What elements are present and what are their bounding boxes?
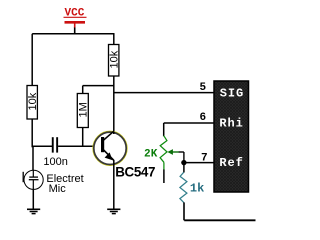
svg-text:10k: 10k bbox=[109, 50, 121, 68]
svg-text:Ref: Ref bbox=[219, 156, 243, 170]
svg-text:5: 5 bbox=[200, 82, 207, 94]
svg-text:7: 7 bbox=[201, 152, 208, 164]
svg-text:1k: 1k bbox=[190, 182, 204, 196]
svg-text:BC547: BC547 bbox=[115, 165, 155, 180]
svg-text:Rhi: Rhi bbox=[219, 116, 243, 130]
svg-text:100n: 100n bbox=[43, 156, 67, 168]
svg-text:1M: 1M bbox=[78, 102, 90, 117]
svg-text:2K: 2K bbox=[144, 149, 158, 161]
svg-text:SIG: SIG bbox=[220, 86, 244, 100]
svg-text:6: 6 bbox=[200, 112, 207, 124]
svg-text:Mic: Mic bbox=[49, 183, 67, 195]
svg-text:10k: 10k bbox=[27, 92, 39, 110]
